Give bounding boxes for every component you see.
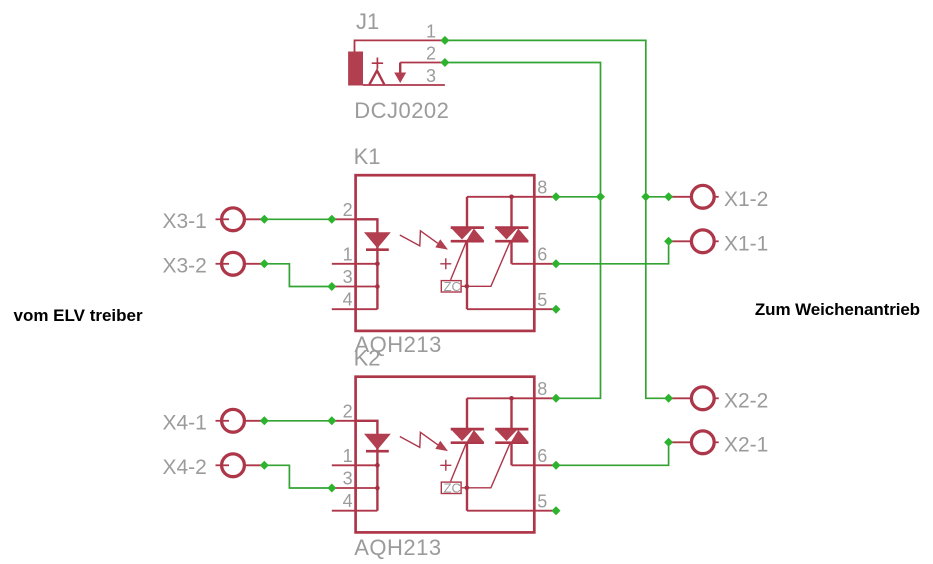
K2 pin 4 — [332, 510, 378, 512]
junction dot X2-2 pin — [664, 394, 673, 403]
K1 triac T1 triangles — [452, 229, 473, 240]
svg-text:X3-2: X3-2 — [163, 255, 207, 278]
K2 pin 5 — [467, 510, 556, 512]
K2 ZC box — [441, 482, 461, 493]
J1 pin 1 line — [355, 40, 445, 51]
junction dot K1 pin6 — [552, 259, 561, 268]
svg-text:1: 1 — [343, 446, 353, 466]
K2 pin 3 — [332, 487, 378, 489]
junction dot N1 at X1-2 — [641, 192, 650, 201]
svg-text:J1: J1 — [356, 9, 379, 34]
K1 ZC junction — [465, 284, 470, 289]
connector X2-2 — [669, 387, 769, 412]
junction dot X2-1 pin — [664, 438, 673, 447]
K1 pin 1 — [332, 263, 378, 265]
K1 pin 2 — [332, 218, 378, 220]
K2 triac T1 bars — [451, 429, 484, 443]
svg-text:AQH213: AQH213 — [354, 535, 441, 560]
K1 pin 6 — [512, 263, 557, 265]
K2 triac T2 triangles — [496, 430, 517, 441]
svg-text:X2-1: X2-1 — [724, 433, 768, 456]
svg-text:ZC: ZC — [444, 279, 461, 294]
connector X3-2 — [163, 252, 265, 277]
svg-text:X1-2: X1-2 — [724, 188, 768, 211]
junction dot K2 pin6 — [552, 461, 561, 470]
K1 junction pin8 net — [509, 195, 514, 200]
K1 ZC gate line T1 — [451, 242, 467, 280]
svg-text:4: 4 — [343, 491, 353, 511]
J1 plus sign — [372, 58, 383, 69]
K1 triac T2 bars — [495, 228, 528, 242]
K1 ZC wire — [461, 242, 510, 286]
J1 pin 2 switch arrow — [399, 63, 401, 73]
svg-text:5: 5 — [537, 290, 547, 310]
K1 pin 5 — [467, 308, 556, 310]
K2 plus sign — [440, 460, 451, 471]
K2 junction pin1 — [375, 463, 380, 468]
K2 LED triangle — [364, 434, 391, 450]
K1 triac T2 triangles — [496, 229, 517, 240]
K1 pin 4 — [332, 308, 378, 310]
junction dot X1-2 pin — [664, 192, 673, 201]
K1 pin 3 — [332, 286, 378, 288]
wire K1 pin6 to X1-1 — [556, 241, 669, 263]
K2 ZC junction — [465, 486, 470, 491]
opto-triac K1 — [332, 144, 556, 357]
K1 pin 8 — [467, 196, 556, 198]
svg-text:3: 3 — [343, 469, 353, 489]
svg-text:6: 6 — [537, 245, 547, 265]
connector X3-1 — [163, 208, 265, 233]
K1 junction pin3 — [375, 284, 380, 289]
svg-text:2: 2 — [426, 44, 436, 64]
svg-text:3: 3 — [426, 66, 436, 86]
connector X4-2 — [163, 454, 265, 479]
svg-text:X4-1: X4-1 — [163, 412, 207, 435]
junction dots X3-1 — [260, 215, 269, 224]
K2 LED branch — [356, 421, 378, 511]
K1 triac T2 stem — [510, 197, 512, 264]
junction dot K2 pin5 — [552, 506, 561, 515]
svg-text:2: 2 — [343, 401, 353, 421]
J1 pin 2 line — [400, 62, 445, 64]
svg-text:8: 8 — [537, 379, 547, 399]
junction dot X1-1 pin — [664, 237, 673, 246]
K1 triac T1 bars — [451, 228, 484, 242]
K1 LED branch — [356, 219, 378, 309]
J1 tip contact chevron — [369, 71, 384, 85]
svg-text:DCJ0202: DCJ0202 — [354, 98, 449, 123]
K1 junction pin1 — [375, 262, 380, 267]
junction dot K1 pin5 — [552, 305, 561, 314]
svg-text:2: 2 — [343, 200, 353, 220]
connector X1-2 — [669, 185, 769, 210]
svg-text:ZC: ZC — [444, 480, 461, 495]
opto-triac K2 — [332, 346, 556, 560]
K1 triac T1 stem — [466, 197, 468, 309]
K2 ZC wire — [461, 444, 510, 488]
wire X4-1 to K2 pin2 — [264, 420, 332, 422]
K2 pin 1 — [332, 464, 378, 466]
wire stub N1 to X1-2 — [646, 196, 669, 198]
K2 pin 6 — [512, 464, 557, 466]
K1 plus sign — [440, 258, 451, 269]
K2 junction pin8 net — [509, 396, 514, 401]
wire X3-1 to K1 pin2 — [264, 218, 332, 220]
wire X3-2 to K1 pin3 — [264, 264, 332, 287]
connector J1 DC jack body — [348, 52, 363, 86]
svg-text:K2: K2 — [354, 346, 381, 371]
K2 triac T2 bars — [495, 429, 528, 443]
junction dot J1 pin1 — [440, 36, 449, 45]
connector X4-1 — [163, 409, 265, 434]
svg-text:Zum Weichenantrieb: Zum Weichenantrieb — [755, 300, 920, 319]
wire net N2 from J1 pin2 to K2 pin8 — [445, 63, 601, 399]
K2 triac T2 stem — [510, 398, 512, 465]
junction dot K2 pin8 — [552, 394, 561, 403]
K2 pin 8 — [467, 397, 556, 399]
svg-text:5: 5 — [537, 492, 547, 512]
junction dot N2 at K1 pin8 — [596, 192, 605, 201]
svg-text:K1: K1 — [354, 144, 381, 169]
connector X2-1 — [669, 431, 769, 456]
K1 LED triangle — [364, 232, 391, 248]
svg-text:X1-1: X1-1 — [724, 232, 768, 255]
svg-text:1: 1 — [426, 21, 436, 41]
K2 triac T1 triangles — [452, 430, 473, 441]
K1 body — [356, 175, 535, 331]
svg-text:X2-2: X2-2 — [724, 389, 768, 412]
K2 light arrow — [400, 432, 438, 447]
K1 LED cathode bar — [366, 248, 389, 251]
junction dot J1 pin2 — [440, 58, 449, 67]
svg-text:X4-2: X4-2 — [163, 456, 207, 479]
svg-text:1: 1 — [343, 244, 353, 264]
svg-text:vom ELV treiber: vom ELV treiber — [14, 306, 143, 325]
wire X4-2 to K2 pin3 — [264, 465, 332, 488]
J1 pin 3 line — [363, 84, 445, 86]
K2 body — [356, 377, 535, 533]
junction dots X3-2 — [260, 259, 269, 268]
svg-text:6: 6 — [537, 446, 547, 466]
K1 light arrow — [400, 231, 438, 246]
wire K1 pin8 to N2 — [556, 196, 601, 198]
junction dots X4-1 — [260, 416, 269, 425]
K2 junction pin3 — [375, 486, 380, 491]
svg-text:8: 8 — [537, 178, 547, 198]
junction dot K1 pin8 — [552, 192, 561, 201]
wire net N1 from J1 pin1 to X2-2 — [445, 40, 669, 398]
junction dots X4-2 — [260, 461, 269, 470]
K2 LED cathode bar — [366, 450, 389, 453]
svg-text:3: 3 — [343, 267, 353, 287]
wire K2 pin6 to X2-1 — [556, 442, 669, 465]
K2 pin 2 — [332, 420, 378, 422]
K2 ZC gate line T1 — [451, 443, 467, 481]
K2 triac T1 stem — [466, 398, 468, 510]
K1 ZC box — [441, 281, 461, 292]
svg-text:X3-1: X3-1 — [163, 210, 207, 233]
connector X1-1 — [669, 230, 769, 255]
svg-text:4: 4 — [343, 290, 353, 310]
